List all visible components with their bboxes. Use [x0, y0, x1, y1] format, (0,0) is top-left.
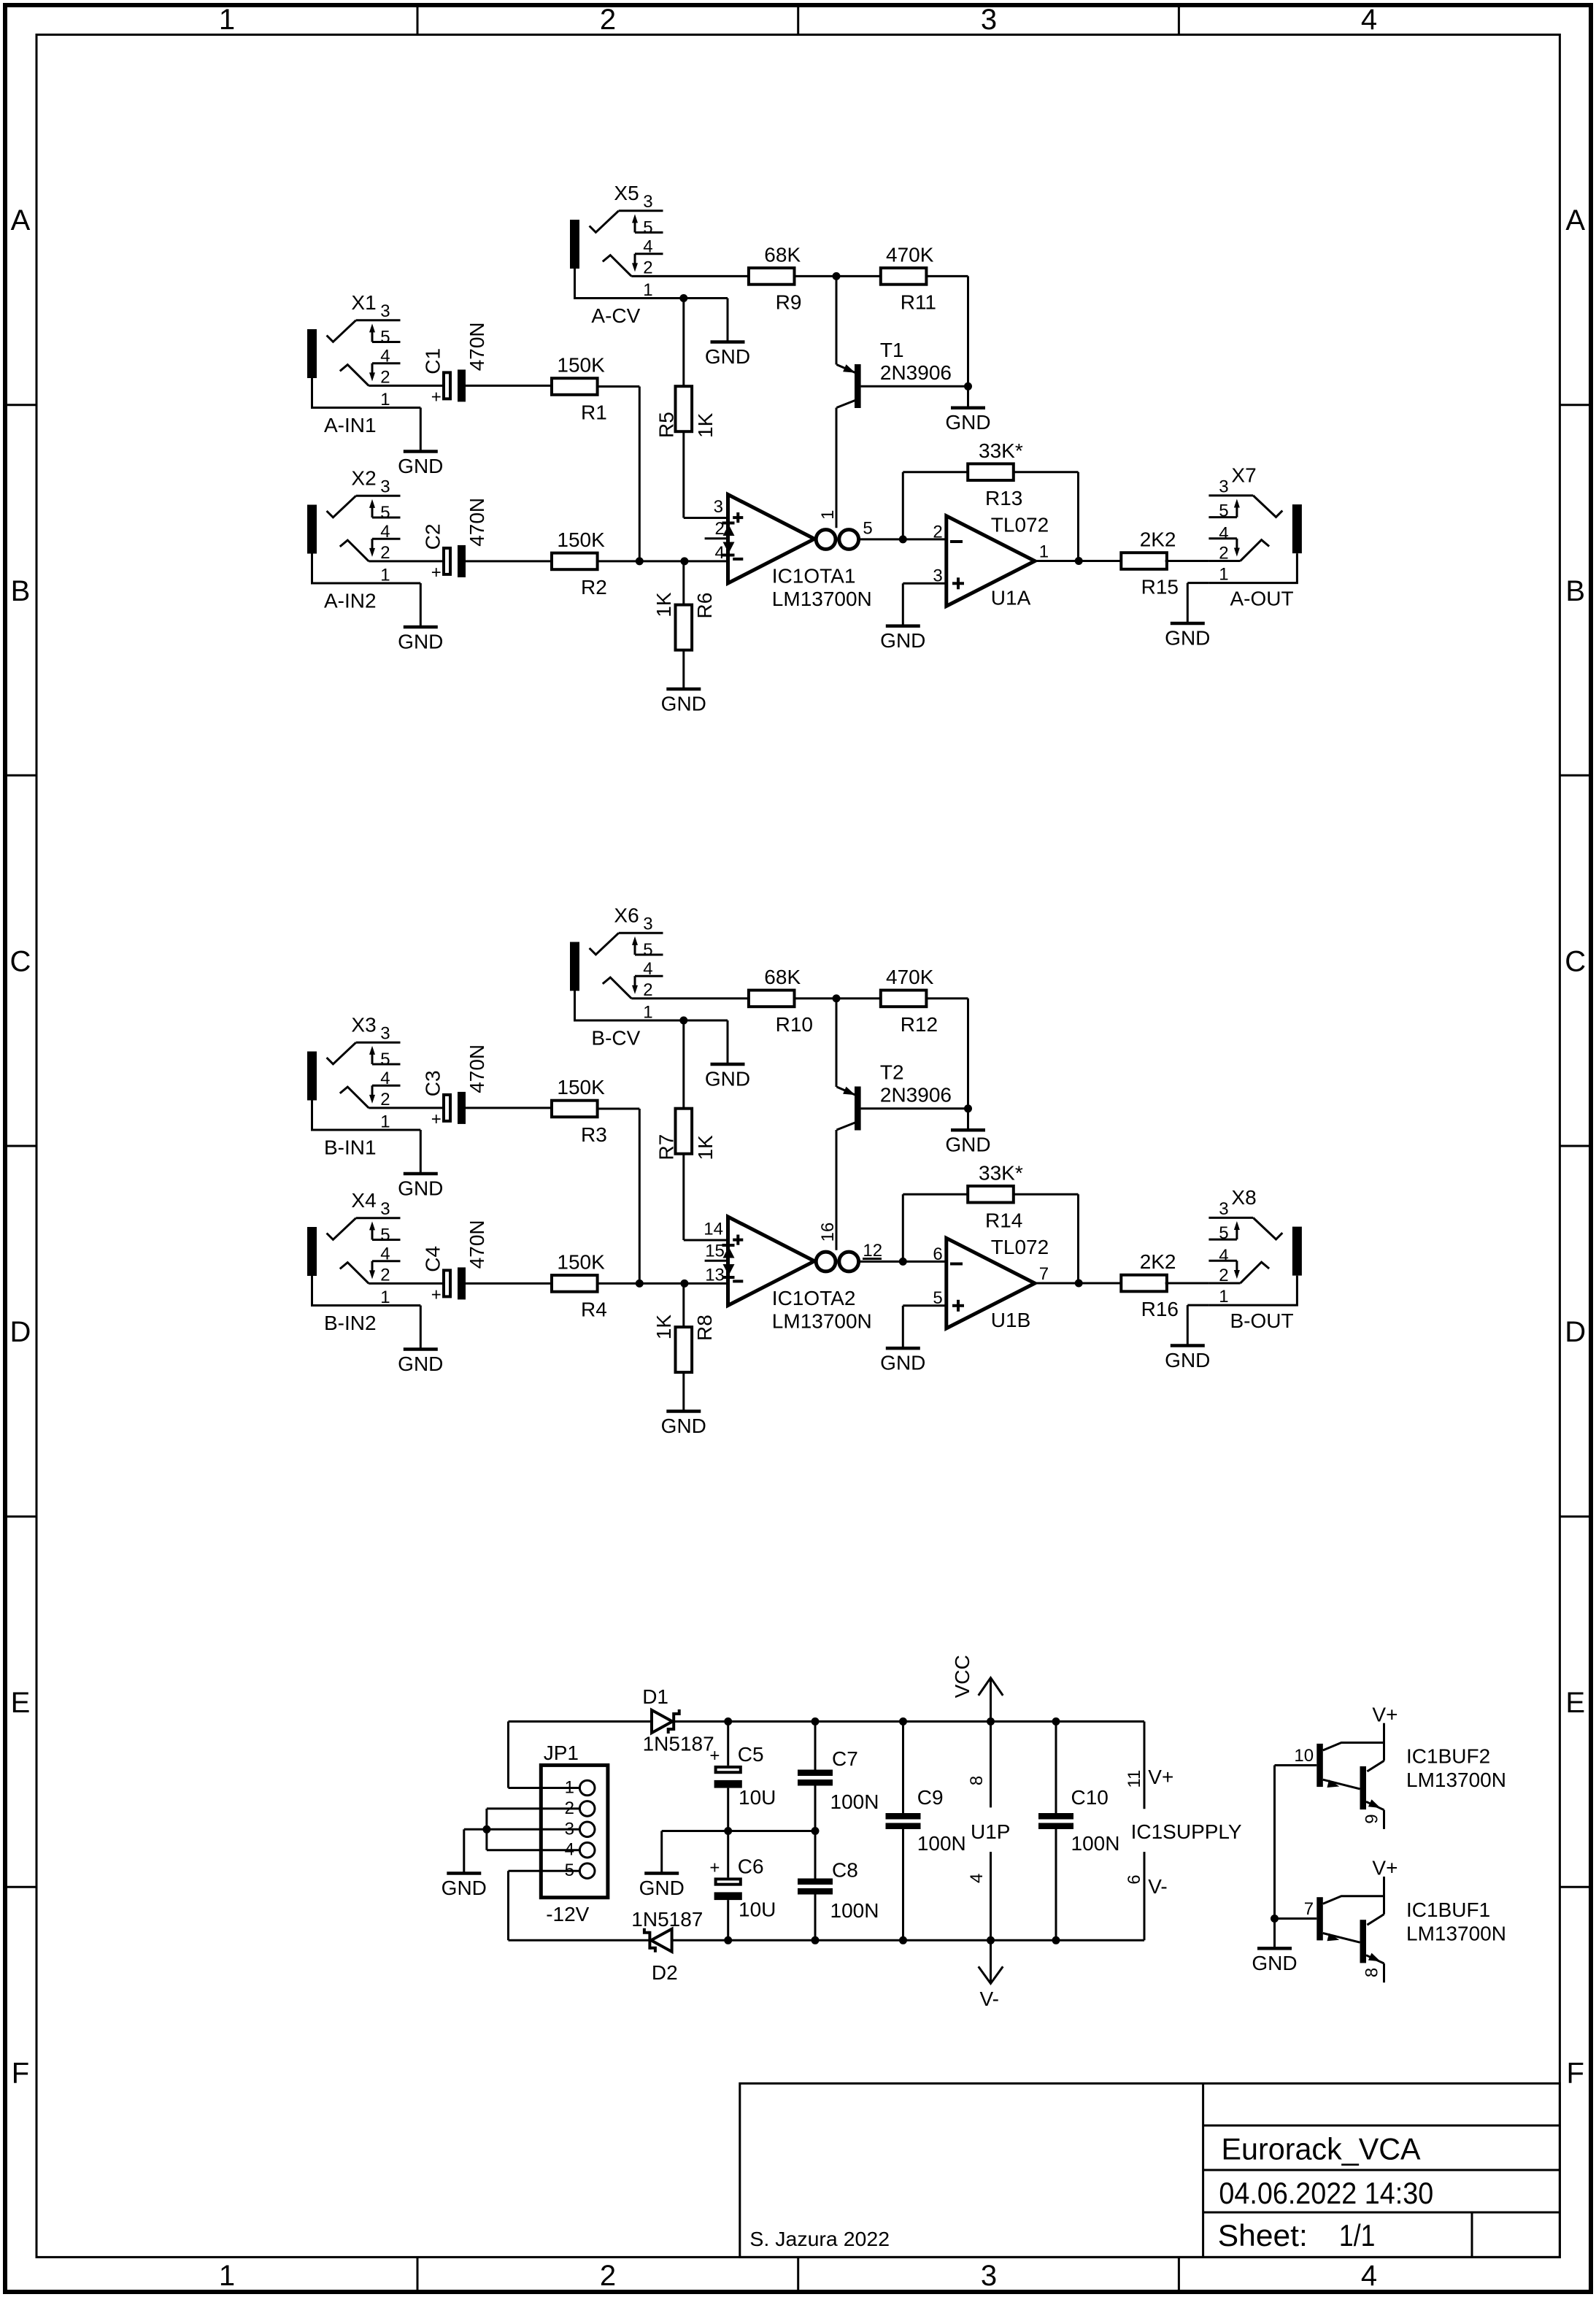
op-amp IC1OTA1 (LM13700N)	[705, 495, 873, 611]
svg-text:+: +	[709, 1858, 720, 1878]
svg-text:A-IN2: A-IN2	[324, 589, 377, 612]
svg-text:IC1OTA1: IC1OTA1	[772, 564, 856, 587]
junction	[899, 535, 907, 543]
ground	[880, 626, 925, 653]
ground	[705, 1064, 750, 1090]
svg-text:IC1BUF1: IC1BUF1	[1406, 1898, 1490, 1921]
junction	[1052, 1936, 1060, 1944]
svg-text:4: 4	[643, 959, 652, 979]
svg-text:2: 2	[600, 2260, 616, 2292]
svg-text:100N: 100N	[830, 1899, 879, 1922]
svg-text:C3: C3	[422, 1070, 444, 1096]
wire	[401, 1304, 421, 1307]
jack X4 (B-IN2)	[307, 1189, 401, 1334]
svg-text:R10: R10	[776, 1013, 813, 1036]
svg-text:150K: 150K	[557, 354, 605, 377]
svg-text:V+: V+	[1148, 1766, 1173, 1788]
svg-text:470N: 470N	[466, 322, 488, 371]
capacitor C1	[422, 322, 488, 407]
resistor R1	[552, 354, 607, 424]
svg-text:GND: GND	[442, 1877, 487, 1899]
svg-text:15: 15	[705, 1242, 725, 1261]
svg-text:F: F	[1566, 2058, 1584, 2090]
svg-text:7: 7	[1039, 1264, 1049, 1284]
svg-text:C6: C6	[738, 1855, 764, 1878]
capacitor C2	[422, 498, 488, 582]
svg-text:3: 3	[380, 301, 390, 321]
svg-text:4: 4	[380, 1244, 390, 1263]
ground	[398, 627, 443, 653]
svg-text:2: 2	[380, 1090, 390, 1109]
connector JP1 (-12V power header)	[541, 1742, 608, 1925]
svg-text:B-IN1: B-IN1	[324, 1136, 377, 1158]
wire	[672, 1939, 1144, 1942]
svg-text:8: 8	[1362, 1968, 1382, 1977]
svg-text:X5: X5	[614, 182, 639, 204]
svg-text:+: +	[431, 1109, 442, 1129]
wire	[861, 385, 968, 388]
wire	[466, 1107, 552, 1109]
svg-text:16: 16	[818, 1223, 838, 1242]
svg-text:470K: 470K	[886, 244, 934, 266]
svg-text:1N5187: 1N5187	[643, 1733, 714, 1755]
power flag VCC	[951, 1655, 1003, 1721]
svg-text:GND: GND	[398, 1353, 443, 1375]
svg-text:X2: X2	[351, 467, 376, 490]
svg-text:C5: C5	[738, 1743, 764, 1766]
svg-text:1/1: 1/1	[1339, 2218, 1376, 2252]
junction	[482, 1825, 490, 1834]
resistor R5	[655, 386, 717, 438]
junction	[964, 382, 972, 390]
junction	[1271, 1915, 1279, 1923]
wire	[660, 1831, 663, 1872]
wire	[1165, 1282, 1209, 1285]
wire	[836, 1130, 838, 1250]
resistor R14	[968, 1161, 1023, 1231]
junction	[899, 1936, 907, 1944]
ground	[1165, 623, 1210, 650]
svg-text:X6: X6	[614, 904, 639, 927]
ground	[398, 452, 443, 478]
svg-text:2: 2	[643, 980, 652, 1000]
buffer IC1BUF1 (LM13700N darlington)	[1304, 1857, 1506, 1983]
svg-text:R9: R9	[776, 291, 802, 314]
wire	[795, 997, 881, 999]
junction	[724, 1827, 732, 1835]
wire	[509, 1939, 650, 1942]
wire	[1187, 1304, 1208, 1307]
svg-text:4: 4	[1361, 2260, 1377, 2292]
capacitor C6 (10U)	[709, 1855, 776, 1921]
svg-text:V-: V-	[1148, 1875, 1167, 1898]
svg-text:C1: C1	[422, 348, 444, 374]
svg-text:2: 2	[380, 1266, 390, 1285]
svg-text:10U: 10U	[739, 1898, 776, 1921]
wire	[814, 1722, 817, 1770]
svg-text:5: 5	[380, 503, 390, 523]
junction	[679, 294, 687, 302]
wire	[836, 999, 838, 1087]
svg-text:C2: C2	[422, 523, 444, 550]
svg-text:S. Jazura 2022: S. Jazura 2022	[749, 2228, 890, 2250]
capacitor C7 (100N)	[798, 1747, 879, 1813]
svg-text:LM13700N: LM13700N	[772, 1310, 872, 1333]
svg-text:1: 1	[565, 1778, 574, 1798]
svg-text:5: 5	[1219, 501, 1228, 520]
svg-text:A-OUT: A-OUT	[1230, 588, 1294, 610]
svg-text:GND: GND	[705, 345, 750, 368]
svg-text:R15: R15	[1141, 576, 1179, 599]
wire	[836, 276, 838, 364]
svg-text:U1A: U1A	[991, 586, 1031, 609]
power pins IC1SUPPLY (LM13700N supply)	[1125, 1722, 1242, 1941]
wire	[663, 275, 749, 277]
wire	[682, 1154, 685, 1240]
transistor T1 (2N3906)	[836, 339, 952, 408]
svg-text:7: 7	[1304, 1899, 1314, 1919]
op-amp U1A (TL072)	[933, 514, 1049, 609]
svg-text:X4: X4	[351, 1189, 376, 1212]
svg-text:4: 4	[380, 346, 390, 366]
buffer IC1BUF2 (LM13700N darlington)	[1294, 1703, 1506, 1829]
wire	[401, 1282, 443, 1285]
svg-text:R4: R4	[581, 1298, 607, 1321]
junction	[680, 1280, 688, 1288]
svg-text:3: 3	[1219, 477, 1228, 497]
svg-text:13: 13	[705, 1266, 725, 1285]
svg-text:150K: 150K	[557, 1076, 605, 1099]
wire	[401, 407, 421, 409]
svg-text:3: 3	[565, 1819, 574, 1839]
ground	[945, 1130, 990, 1156]
junction	[899, 1717, 907, 1725]
svg-text:IC1OTA2: IC1OTA2	[772, 1287, 856, 1309]
power pins U1P (TL072 supply)	[967, 1722, 1010, 1941]
svg-text:X3: X3	[351, 1014, 376, 1036]
svg-text:A: A	[1565, 204, 1585, 236]
wire	[464, 1828, 541, 1831]
wire	[1275, 1917, 1317, 1920]
resistor R3	[552, 1076, 607, 1146]
svg-text:2K2: 2K2	[1140, 528, 1176, 551]
svg-text:3: 3	[1219, 1199, 1228, 1219]
svg-text:14: 14	[703, 1220, 723, 1239]
wire	[727, 1722, 729, 1766]
wire	[682, 650, 685, 688]
svg-text:1: 1	[380, 390, 390, 409]
wire	[727, 1831, 729, 1878]
resistor R8	[652, 1315, 716, 1372]
wire	[509, 1787, 541, 1789]
svg-text:04.06.2022 14:30: 04.06.2022 14:30	[1219, 2176, 1433, 2210]
svg-text:4: 4	[380, 522, 390, 542]
svg-text:2N3906: 2N3906	[880, 1084, 952, 1107]
svg-text:X1: X1	[351, 291, 376, 314]
wire	[860, 1261, 947, 1263]
svg-text:4: 4	[565, 1840, 574, 1860]
svg-text:470N: 470N	[466, 498, 488, 547]
wire	[487, 1807, 541, 1809]
svg-text:A-IN1: A-IN1	[324, 414, 377, 436]
svg-text:100N: 100N	[1071, 1832, 1120, 1855]
jack X7 (A-OUT)	[1208, 463, 1302, 609]
svg-text:1: 1	[219, 2260, 235, 2292]
capacitor C5 (10U)	[709, 1743, 776, 1809]
svg-text:150K: 150K	[557, 1251, 605, 1274]
svg-text:33K*: 33K*	[979, 439, 1023, 462]
power flag V-	[979, 1940, 1003, 2010]
svg-text:TL072: TL072	[991, 1236, 1049, 1258]
resistor R13	[968, 439, 1023, 509]
junction	[812, 1936, 820, 1944]
svg-text:LM13700N: LM13700N	[1406, 1769, 1506, 1791]
svg-text:3: 3	[380, 1023, 390, 1043]
wire	[663, 1020, 728, 1022]
ground	[639, 1874, 685, 1900]
svg-text:TL072: TL072	[991, 514, 1049, 536]
svg-text:10U: 10U	[739, 1786, 776, 1809]
svg-text:11: 11	[1125, 1770, 1144, 1788]
svg-text:1K: 1K	[652, 592, 675, 617]
svg-text:8: 8	[967, 1776, 987, 1785]
junction	[833, 994, 841, 1002]
junction	[812, 1717, 820, 1725]
svg-text:5: 5	[380, 1226, 390, 1245]
wire	[926, 275, 968, 277]
wire	[682, 431, 685, 518]
svg-text:R16: R16	[1141, 1298, 1179, 1320]
svg-text:3: 3	[380, 477, 390, 496]
junction	[987, 1717, 995, 1725]
svg-text:2K2: 2K2	[1140, 1250, 1176, 1273]
svg-text:GND: GND	[661, 693, 706, 715]
wire	[861, 1107, 968, 1109]
svg-text:GND: GND	[639, 1877, 685, 1899]
wire	[1014, 1193, 1079, 1196]
svg-text:2N3906: 2N3906	[880, 361, 952, 384]
wire	[902, 1194, 904, 1261]
wire	[401, 1107, 443, 1109]
resistor R7	[655, 1109, 717, 1161]
wire	[1055, 1722, 1057, 1814]
svg-text:3: 3	[380, 1199, 390, 1219]
wire	[1035, 560, 1123, 562]
svg-text:1N5187: 1N5187	[631, 1908, 703, 1931]
svg-text:GND: GND	[661, 1415, 706, 1437]
svg-text:R3: R3	[581, 1123, 607, 1146]
svg-text:1K: 1K	[694, 412, 717, 438]
svg-text:E: E	[1565, 1687, 1585, 1719]
svg-text:D1: D1	[642, 1685, 668, 1708]
svg-text:5: 5	[380, 1050, 390, 1069]
wire	[674, 1720, 1144, 1723]
wire	[466, 560, 552, 562]
svg-text:2: 2	[565, 1798, 574, 1818]
svg-text:GND: GND	[398, 631, 443, 653]
ground	[442, 1874, 487, 1900]
svg-text:2: 2	[380, 543, 390, 563]
wire	[466, 385, 552, 387]
svg-text:+: +	[431, 563, 442, 582]
ground	[705, 342, 750, 369]
svg-text:C7: C7	[832, 1747, 858, 1770]
svg-text:R5: R5	[655, 412, 677, 438]
svg-text:JP1: JP1	[544, 1742, 579, 1764]
wire	[598, 1108, 640, 1110]
svg-text:GND: GND	[880, 629, 925, 652]
svg-text:3: 3	[714, 497, 723, 517]
svg-text:GND: GND	[945, 411, 990, 434]
op-amp U1B (TL072)	[933, 1236, 1049, 1331]
svg-text:LM13700N: LM13700N	[772, 588, 872, 610]
junction	[812, 1827, 820, 1835]
svg-text:U1B: U1B	[991, 1309, 1030, 1331]
svg-text:GND: GND	[1165, 1349, 1210, 1371]
svg-text:2: 2	[600, 4, 616, 36]
junction	[964, 1104, 972, 1112]
wire	[860, 538, 947, 540]
svg-text:GND: GND	[1165, 627, 1210, 650]
op-amp IC1OTA2 (LM13700N)	[703, 1217, 882, 1333]
svg-text:1K: 1K	[652, 1315, 675, 1340]
junction	[1075, 557, 1083, 565]
svg-text:68K: 68K	[764, 244, 801, 266]
svg-text:X7: X7	[1231, 463, 1256, 486]
resistor R6	[652, 592, 716, 650]
svg-text:GND: GND	[945, 1134, 990, 1156]
svg-text:1: 1	[818, 510, 838, 520]
diode D2 (1N5187)	[631, 1908, 703, 1984]
svg-text:4: 4	[1219, 1246, 1228, 1266]
svg-text:150K: 150K	[557, 528, 605, 551]
svg-text:2: 2	[1219, 544, 1228, 563]
junction	[1052, 1717, 1060, 1725]
wire	[1165, 560, 1209, 562]
junction	[724, 1936, 732, 1944]
svg-text:B-CV: B-CV	[591, 1026, 640, 1049]
svg-text:2: 2	[1219, 1266, 1228, 1285]
capacitor C9 (100N)	[886, 1786, 966, 1855]
wire	[509, 1720, 652, 1723]
wire	[663, 997, 749, 999]
svg-text:IC1SUPPLY: IC1SUPPLY	[1131, 1820, 1242, 1843]
ground	[398, 1174, 443, 1200]
resistor R4	[552, 1251, 607, 1321]
svg-text:V+: V+	[1372, 1857, 1398, 1879]
svg-text:3: 3	[981, 2260, 997, 2292]
svg-text:V+: V+	[1372, 1703, 1398, 1725]
svg-text:X8: X8	[1231, 1186, 1256, 1209]
svg-text:V-: V-	[980, 1988, 999, 2010]
wire	[682, 1283, 685, 1327]
svg-text:5: 5	[380, 328, 390, 347]
svg-text:+: +	[431, 387, 442, 407]
jack X6 (B-CV)	[570, 904, 663, 1050]
svg-text:A: A	[11, 204, 31, 236]
svg-text:4: 4	[380, 1069, 390, 1088]
svg-text:2: 2	[380, 368, 390, 388]
junction	[636, 1280, 644, 1288]
junction	[899, 1258, 907, 1266]
svg-text:GND: GND	[705, 1068, 750, 1090]
junction	[1075, 1280, 1083, 1288]
wire	[509, 1870, 541, 1872]
wire	[663, 297, 728, 299]
svg-text:-12V: -12V	[546, 1903, 589, 1925]
transistor T2 (2N3906)	[836, 1061, 952, 1131]
svg-text:Eurorack_VCA: Eurorack_VCA	[1222, 2132, 1421, 2166]
svg-text:C4: C4	[422, 1246, 444, 1272]
svg-text:1: 1	[643, 1003, 652, 1023]
capacitor C10 (100N)	[1038, 1786, 1119, 1855]
wire	[1273, 1919, 1276, 1947]
svg-text:1: 1	[219, 4, 235, 36]
junction	[833, 272, 841, 280]
svg-text:1: 1	[1219, 565, 1228, 585]
jack X5 (A-CV)	[570, 182, 663, 327]
svg-text:U1P: U1P	[971, 1820, 1010, 1843]
wire	[682, 1372, 685, 1409]
svg-text:B-OUT: B-OUT	[1230, 1309, 1294, 1332]
svg-text:4: 4	[715, 543, 725, 563]
wire	[401, 582, 421, 585]
svg-text:3: 3	[643, 914, 652, 934]
svg-text:D: D	[1565, 1316, 1586, 1348]
svg-text:2: 2	[933, 523, 942, 542]
svg-text:LM13700N: LM13700N	[1406, 1922, 1506, 1944]
jack X8 (B-OUT)	[1208, 1186, 1302, 1332]
junction	[636, 557, 644, 565]
wire	[401, 560, 443, 562]
wire	[401, 385, 443, 387]
svg-text:100N: 100N	[830, 1790, 879, 1813]
svg-text:1: 1	[380, 1288, 390, 1307]
wire	[1014, 471, 1079, 473]
ground	[1252, 1948, 1297, 1974]
wire	[682, 561, 685, 605]
wire	[401, 1129, 421, 1131]
wire	[1035, 1282, 1123, 1285]
resistor R15	[1121, 528, 1179, 599]
svg-text:10: 10	[1294, 1746, 1314, 1766]
svg-text:470K: 470K	[886, 966, 934, 988]
wire	[466, 1282, 552, 1285]
svg-text:A-CV: A-CV	[591, 304, 640, 327]
svg-text:470N: 470N	[466, 1044, 488, 1093]
svg-text:4: 4	[643, 236, 652, 256]
svg-text:5: 5	[863, 519, 872, 539]
svg-text:R14: R14	[985, 1209, 1022, 1231]
junction	[724, 1717, 732, 1725]
svg-text:R6: R6	[693, 593, 716, 619]
svg-text:GND: GND	[398, 455, 443, 477]
wire	[902, 472, 904, 539]
resistor R12	[881, 966, 938, 1036]
svg-text:5: 5	[1219, 1223, 1228, 1243]
svg-text:2: 2	[715, 519, 725, 539]
wire	[682, 1020, 685, 1109]
svg-text:C: C	[10, 946, 31, 978]
svg-text:D: D	[10, 1316, 31, 1348]
wire	[463, 1829, 465, 1871]
svg-text:4: 4	[1361, 4, 1377, 36]
wire	[598, 385, 640, 388]
ground	[945, 408, 990, 434]
svg-text:68K: 68K	[764, 966, 801, 988]
junction	[679, 1017, 687, 1025]
svg-text:1: 1	[643, 280, 652, 300]
